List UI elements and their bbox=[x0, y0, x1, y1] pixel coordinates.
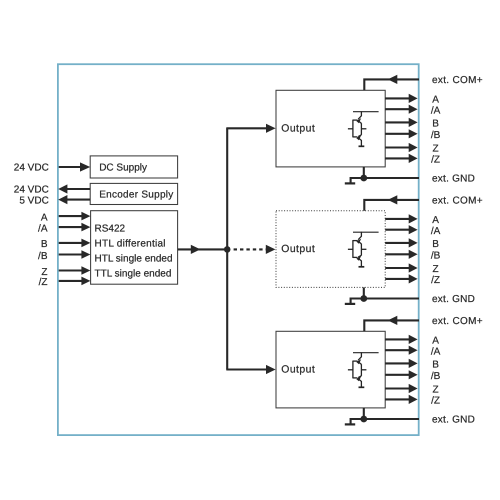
wire input B with arrow bbox=[59, 239, 91, 248]
svg-text:Z: Z bbox=[41, 267, 47, 278]
wire output A with arrow bbox=[385, 94, 417, 103]
svg-text:A: A bbox=[41, 212, 48, 223]
wire Encoder Supply 5VDC out arrow (left) bbox=[58, 195, 90, 204]
wire ext. COM+ feed 2 bbox=[364, 195, 419, 211]
svg-text:Z: Z bbox=[433, 144, 439, 155]
base stub left bbox=[348, 128, 353, 130]
wire branch to output 3 with arrow bbox=[226, 365, 275, 374]
mid bar bbox=[360, 123, 362, 135]
node trunk junction dot bbox=[224, 246, 231, 253]
transistor push-pull output stage 3 bbox=[348, 352, 379, 387]
collector lead from rail bbox=[358, 111, 361, 119]
svg-text:/B: /B bbox=[431, 251, 441, 262]
transistor push-pull output stage 1 bbox=[348, 111, 379, 146]
wire output /Z2 with arrow bbox=[385, 274, 417, 283]
emitter lead bottom bbox=[358, 137, 362, 146]
svg-text:/B: /B bbox=[431, 371, 441, 382]
wire dashed branch to output 2 with arrow bbox=[234, 245, 276, 254]
svg-text:A: A bbox=[432, 95, 439, 106]
wire output A2 with arrow bbox=[385, 214, 417, 223]
svg-text:ext. COM+: ext. COM+ bbox=[432, 75, 483, 86]
wire output /Z with arrow bbox=[385, 154, 417, 163]
wire output /B2 with arrow bbox=[385, 250, 417, 259]
svg-text:/A: /A bbox=[431, 346, 441, 357]
wire output /Z3 with arrow bbox=[385, 395, 417, 404]
wire output /B with arrow bbox=[385, 129, 417, 138]
svg-text:Output: Output bbox=[281, 123, 315, 134]
wire output B3 with arrow bbox=[385, 359, 417, 368]
svg-text:B: B bbox=[432, 360, 439, 371]
block Output 3 box bbox=[276, 331, 385, 408]
wire output Z3 with arrow bbox=[385, 384, 417, 393]
svg-text:/Z: /Z bbox=[431, 396, 440, 407]
node ext. GND junction dot 3 bbox=[360, 416, 367, 423]
svg-text:ext. GND: ext. GND bbox=[432, 294, 475, 305]
emitter terminal bar bbox=[359, 145, 365, 147]
svg-text:/Z: /Z bbox=[431, 275, 440, 286]
svg-text:DC Supply: DC Supply bbox=[99, 163, 147, 174]
wire output /B3 with arrow bbox=[385, 370, 417, 379]
block Output 1 box bbox=[276, 90, 385, 167]
svg-text:TTL single ended: TTL single ended bbox=[95, 269, 172, 280]
wire output Z2 with arrow bbox=[385, 263, 417, 272]
svg-text:HTL single ended: HTL single ended bbox=[95, 254, 173, 265]
svg-text:Output: Output bbox=[281, 244, 315, 255]
wire output /A3 with arrow bbox=[385, 346, 417, 355]
svg-text:ext. GND: ext. GND bbox=[432, 174, 475, 185]
wire ext. GND rail 3 bbox=[345, 408, 419, 425]
svg-text:Encoder Supply: Encoder Supply bbox=[99, 190, 173, 201]
svg-text:ext. COM+: ext. COM+ bbox=[432, 316, 483, 327]
svg-text:ext. GND: ext. GND bbox=[432, 415, 475, 426]
wire branch to output 1 with arrow bbox=[226, 124, 275, 133]
wire ext. GND rail 1 bbox=[345, 167, 419, 184]
svg-text:/A: /A bbox=[38, 223, 48, 234]
top arm bbox=[353, 119, 358, 121]
emitter diag top bbox=[357, 120, 361, 123]
arrow bottom bbox=[356, 135, 361, 140]
wire output Z with arrow bbox=[385, 143, 417, 152]
base bar bbox=[352, 120, 354, 138]
wire ext. COM+ feed 3 bbox=[364, 316, 419, 332]
svg-text:RS422: RS422 bbox=[95, 224, 126, 235]
wire Encoder Supply 24VDC out arrow (left) bbox=[58, 184, 90, 193]
svg-text:HTL differential: HTL differential bbox=[95, 239, 166, 250]
wire input A with arrow bbox=[59, 212, 91, 221]
wire output B2 with arrow bbox=[385, 238, 417, 247]
transistor push-pull output stage 2 bbox=[348, 232, 379, 267]
collector diag bottom bbox=[358, 135, 361, 137]
wire RS422 output feed to trunk junction (inline arrow) bbox=[178, 245, 228, 254]
arrow top bbox=[356, 118, 361, 123]
svg-text:B: B bbox=[432, 119, 439, 130]
svg-text:24 VDC: 24 VDC bbox=[14, 185, 49, 196]
block DC Supply bbox=[90, 156, 177, 178]
wire output B with arrow bbox=[385, 118, 417, 127]
block Encoder Supply bbox=[90, 183, 177, 204]
wire trunk vertical bbox=[226, 128, 228, 369]
svg-text:A: A bbox=[432, 336, 439, 347]
node ext. GND junction dot 2 bbox=[360, 295, 367, 302]
base stub right bbox=[361, 128, 366, 130]
svg-text:/A: /A bbox=[431, 105, 441, 116]
svg-text:/Z: /Z bbox=[39, 277, 48, 288]
wire input /A with arrow bbox=[59, 223, 91, 232]
wire output /A with arrow bbox=[385, 105, 417, 114]
supply rail bbox=[353, 111, 379, 113]
svg-text:/Z: /Z bbox=[431, 155, 440, 166]
outer enclosure border bbox=[58, 64, 419, 435]
svg-text:A: A bbox=[432, 215, 439, 226]
svg-text:Output: Output bbox=[281, 364, 315, 375]
block RS422 input stage bbox=[91, 211, 178, 285]
wire ext. COM+ feed (inline left arrow + corner into box top) bbox=[364, 75, 419, 91]
svg-text:5 VDC: 5 VDC bbox=[19, 195, 48, 206]
svg-text:24 VDC: 24 VDC bbox=[14, 163, 49, 174]
wire output /A2 with arrow bbox=[385, 225, 417, 234]
svg-text:Z: Z bbox=[433, 385, 439, 396]
wire input /B with arrow bbox=[59, 250, 91, 259]
svg-text:/B: /B bbox=[431, 130, 441, 141]
bottom arm bbox=[353, 136, 358, 138]
svg-text:/A: /A bbox=[431, 226, 441, 237]
wire input Z with arrow bbox=[59, 266, 91, 275]
wire ext. GND rail 2 bbox=[345, 287, 419, 304]
wire input /Z with arrow bbox=[59, 277, 91, 286]
block Output 2 box (dotted) bbox=[276, 211, 385, 288]
wire 24VDC into DC Supply with arrow bbox=[59, 162, 90, 171]
svg-text:ext. COM+: ext. COM+ bbox=[432, 196, 483, 207]
svg-text:B: B bbox=[432, 239, 439, 250]
wire output A3 with arrow bbox=[385, 335, 417, 344]
svg-text:/B: /B bbox=[38, 251, 48, 262]
svg-text:B: B bbox=[41, 239, 48, 250]
node ext. GND junction dot 1 bbox=[360, 175, 367, 182]
svg-text:Z: Z bbox=[433, 264, 439, 275]
